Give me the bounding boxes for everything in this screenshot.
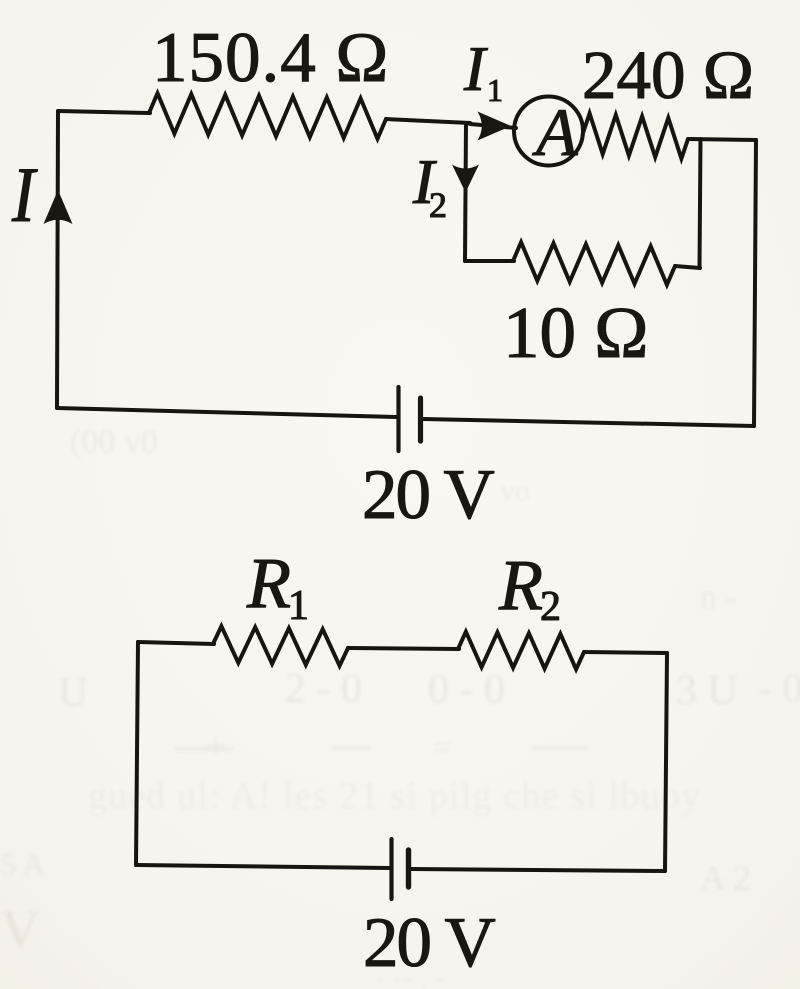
svg-text:R: R bbox=[246, 543, 291, 623]
svg-text:A: A bbox=[532, 94, 578, 170]
wire I2 branch vertical down from node bbox=[465, 123, 466, 261]
arrowhead I (up) bbox=[44, 190, 73, 224]
wire bottom right segment (bottom circuit) bbox=[411, 869, 665, 871]
svg-text:I: I bbox=[11, 152, 38, 238]
wire bottom left segment bbox=[57, 408, 396, 417]
battery 20V (bottom): long plate bbox=[389, 839, 393, 899]
wire between R1 and R2 bbox=[348, 648, 459, 649]
wire right vertical (bottom circuit) bbox=[665, 653, 667, 871]
label I bbox=[11, 152, 38, 238]
resistor R1 zigzag bbox=[213, 626, 348, 666]
wire top-left horizontal bbox=[58, 111, 150, 113]
wire bottom right segment bbox=[423, 419, 754, 426]
resistor 10 ohm zigzag bbox=[513, 242, 675, 285]
wire inner loop bottom-left bbox=[465, 259, 514, 263]
resistor 150.4 ohm zigzag bbox=[149, 93, 386, 139]
svg-text:U: U bbox=[58, 670, 88, 716]
wire R2 to top-right corner bbox=[584, 652, 667, 653]
ammeter A bbox=[514, 94, 583, 170]
wire left vertical bbox=[57, 111, 58, 408]
svg-text:R: R bbox=[498, 545, 543, 625]
resistor R2 zigzag bbox=[458, 632, 584, 670]
svg-text:A 2: A 2 bbox=[700, 858, 751, 898]
svg-text:240 Ω: 240 Ω bbox=[582, 37, 754, 113]
svg-text:0 - 0: 0 - 0 bbox=[428, 667, 505, 713]
wire resistor to node bbox=[386, 119, 470, 123]
battery 20V: short plate bbox=[418, 398, 423, 441]
wire outer right vertical bbox=[754, 140, 756, 426]
wire left vertical (bottom circuit) bbox=[136, 642, 138, 865]
svg-text:(00 v0: (00 v0 bbox=[70, 423, 158, 460]
wire 240 ohm to top-right corner bbox=[688, 139, 756, 140]
svg-text:2 - 0: 2 - 0 bbox=[285, 666, 362, 712]
wire 10 ohm to inner-right corner bbox=[675, 266, 700, 268]
svg-text:+: + bbox=[205, 725, 226, 767]
svg-text:5 A: 5 A bbox=[0, 846, 45, 882]
svg-text:vo: vo bbox=[500, 474, 530, 507]
svg-text:1: 1 bbox=[487, 72, 503, 108]
svg-text:3 U: 3 U bbox=[676, 668, 738, 714]
node junction to ammeter wire bbox=[470, 124, 516, 128]
svg-text:I: I bbox=[463, 33, 488, 104]
bleed-through faint marks from reverse page bbox=[0, 423, 800, 989]
svg-text:2: 2 bbox=[429, 185, 447, 225]
battery 20V (bottom): short plate bbox=[406, 850, 411, 887]
svg-text:gued ul: A! les 21 si pilg che: gued ul: A! les 21 si pilg che si lbuoy bbox=[88, 775, 700, 817]
svg-text:20 V: 20 V bbox=[363, 904, 495, 982]
arrowhead I2 (down) bbox=[452, 165, 479, 193]
arrowhead I1 (right) bbox=[478, 112, 512, 141]
resistor 240 ohm zigzag bbox=[583, 113, 688, 158]
wire bottom left segment (bottom circuit) bbox=[136, 865, 389, 868]
svg-text:V: V bbox=[0, 899, 40, 961]
svg-text:2: 2 bbox=[540, 584, 561, 630]
svg-text:1: 1 bbox=[288, 583, 309, 629]
svg-text:20 V: 20 V bbox=[362, 456, 494, 534]
svg-text:=: = bbox=[432, 729, 451, 766]
battery 20V: long plate bbox=[396, 387, 400, 451]
svg-text:150.4 Ω: 150.4 Ω bbox=[152, 19, 389, 97]
svg-text:n -: n - bbox=[700, 579, 737, 616]
wire inner loop right vertical bbox=[700, 139, 701, 268]
svg-text:10 Ω: 10 Ω bbox=[503, 292, 649, 373]
wire top-left horizontal (bottom circuit) bbox=[138, 642, 214, 644]
svg-text:- 0: - 0 bbox=[758, 666, 800, 712]
